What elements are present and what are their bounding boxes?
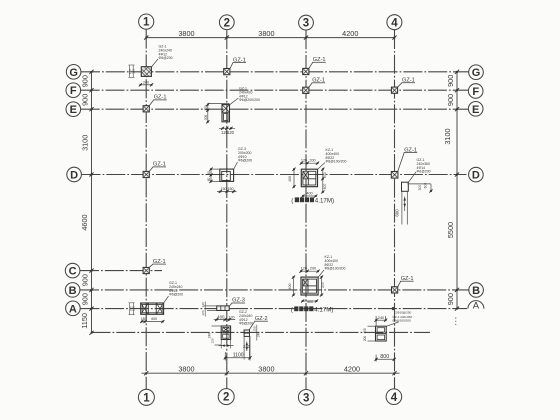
- svg-text:150: 150: [363, 328, 367, 334]
- svg-text:900: 900: [446, 75, 455, 87]
- svg-text:400: 400: [288, 284, 292, 290]
- svg-text:120: 120: [132, 306, 136, 311]
- svg-text:240: 240: [243, 344, 251, 349]
- svg-text:3: 3: [303, 392, 309, 404]
- svg-text:120: 120: [301, 158, 307, 162]
- svg-text:240: 240: [256, 332, 260, 338]
- svg-text:3800: 3800: [258, 29, 274, 38]
- svg-text:3: 3: [303, 18, 309, 30]
- svg-text:900: 900: [81, 293, 90, 305]
- svg-text:3800: 3800: [258, 365, 274, 374]
- svg-text:3800: 3800: [178, 365, 194, 374]
- svg-text:F: F: [472, 86, 479, 98]
- svg-text:800: 800: [380, 354, 389, 360]
- svg-text:E: E: [472, 104, 479, 116]
- svg-text:120: 120: [204, 105, 208, 111]
- svg-text:200: 200: [321, 282, 325, 288]
- svg-text:900: 900: [81, 75, 90, 87]
- svg-text:D: D: [472, 170, 480, 182]
- svg-text:4200: 4200: [342, 29, 358, 38]
- svg-text:(: (: [291, 197, 294, 204]
- svg-text:4: 4: [391, 392, 398, 404]
- svg-text:Φ8@100/200: Φ8@100/200: [326, 160, 347, 164]
- svg-text:1100: 1100: [233, 353, 244, 359]
- svg-text:400: 400: [217, 315, 225, 320]
- svg-text:F: F: [70, 85, 77, 97]
- svg-text:4200: 4200: [344, 365, 360, 374]
- svg-text:80: 80: [207, 171, 211, 175]
- svg-text:E: E: [70, 104, 77, 116]
- svg-text:C: C: [69, 266, 77, 278]
- svg-text:D: D: [70, 169, 78, 181]
- svg-text:A: A: [69, 303, 77, 315]
- svg-text:120: 120: [301, 266, 307, 270]
- svg-text:1150: 1150: [80, 313, 89, 329]
- svg-text:150: 150: [220, 187, 226, 191]
- svg-text:900: 900: [81, 94, 90, 106]
- svg-text:4600: 4600: [80, 214, 89, 230]
- svg-text:120: 120: [132, 69, 136, 74]
- svg-text:150: 150: [227, 187, 233, 191]
- svg-text:2: 2: [223, 392, 229, 404]
- svg-text:3800: 3800: [178, 29, 194, 38]
- svg-text:400: 400: [307, 300, 313, 304]
- svg-text:B: B: [472, 285, 480, 297]
- svg-text:400: 400: [151, 317, 157, 321]
- svg-text:120: 120: [228, 316, 234, 320]
- svg-text:240: 240: [143, 81, 149, 85]
- svg-text:120: 120: [211, 338, 215, 343]
- svg-text:120: 120: [227, 130, 235, 135]
- svg-text:900: 900: [81, 274, 90, 286]
- svg-text:3100: 3100: [81, 135, 90, 151]
- svg-text:400: 400: [288, 176, 292, 182]
- svg-text:600: 600: [395, 209, 400, 217]
- svg-text:Φ6@200: Φ6@200: [239, 322, 253, 326]
- svg-text:240: 240: [378, 316, 384, 320]
- svg-text:3100: 3100: [443, 128, 452, 144]
- svg-text:900: 900: [446, 293, 455, 305]
- svg-text:Φ6@200: Φ6@200: [169, 293, 183, 297]
- svg-text:B: B: [69, 285, 77, 297]
- svg-text:G: G: [472, 67, 481, 79]
- svg-text:2: 2: [224, 17, 230, 29]
- svg-text:Φ6@200: Φ6@200: [159, 56, 173, 60]
- svg-text:120: 120: [201, 302, 205, 307]
- svg-text:A: A: [473, 300, 480, 311]
- svg-text:900: 900: [446, 94, 455, 106]
- svg-text:200: 200: [309, 158, 315, 162]
- svg-text:300: 300: [204, 115, 208, 121]
- svg-text:200: 200: [363, 336, 367, 342]
- svg-text:400: 400: [306, 191, 312, 195]
- svg-text:Φ6@200: Φ6@200: [238, 159, 252, 163]
- svg-text:Φ6@200/200: Φ6@200/200: [392, 319, 411, 323]
- svg-text:150: 150: [253, 326, 257, 331]
- svg-text:G: G: [69, 67, 78, 79]
- svg-text:1: 1: [143, 392, 150, 404]
- svg-text:4.17M): 4.17M): [315, 197, 334, 204]
- svg-text:240: 240: [207, 333, 211, 339]
- svg-text:4.17M): 4.17M): [314, 306, 333, 313]
- svg-text:200: 200: [323, 172, 327, 178]
- svg-text:60: 60: [207, 178, 211, 182]
- svg-text:1: 1: [143, 17, 150, 29]
- svg-text:180: 180: [141, 317, 147, 321]
- svg-text:200: 200: [310, 266, 316, 270]
- svg-text:300: 300: [418, 185, 422, 191]
- svg-text:4: 4: [391, 17, 398, 29]
- svg-text:(: (: [291, 306, 294, 313]
- svg-text:600: 600: [423, 183, 427, 189]
- svg-text:120: 120: [201, 310, 205, 315]
- svg-text:600: 600: [323, 184, 327, 190]
- svg-text:Φ8@100/200: Φ8@100/200: [325, 267, 346, 271]
- svg-text:Φ6@200: Φ6@200: [417, 170, 431, 174]
- svg-text:2Φ10@250: 2Φ10@250: [395, 311, 411, 315]
- svg-text:5500: 5500: [446, 222, 455, 238]
- svg-text:Φ6@200/200: Φ6@200/200: [239, 98, 260, 102]
